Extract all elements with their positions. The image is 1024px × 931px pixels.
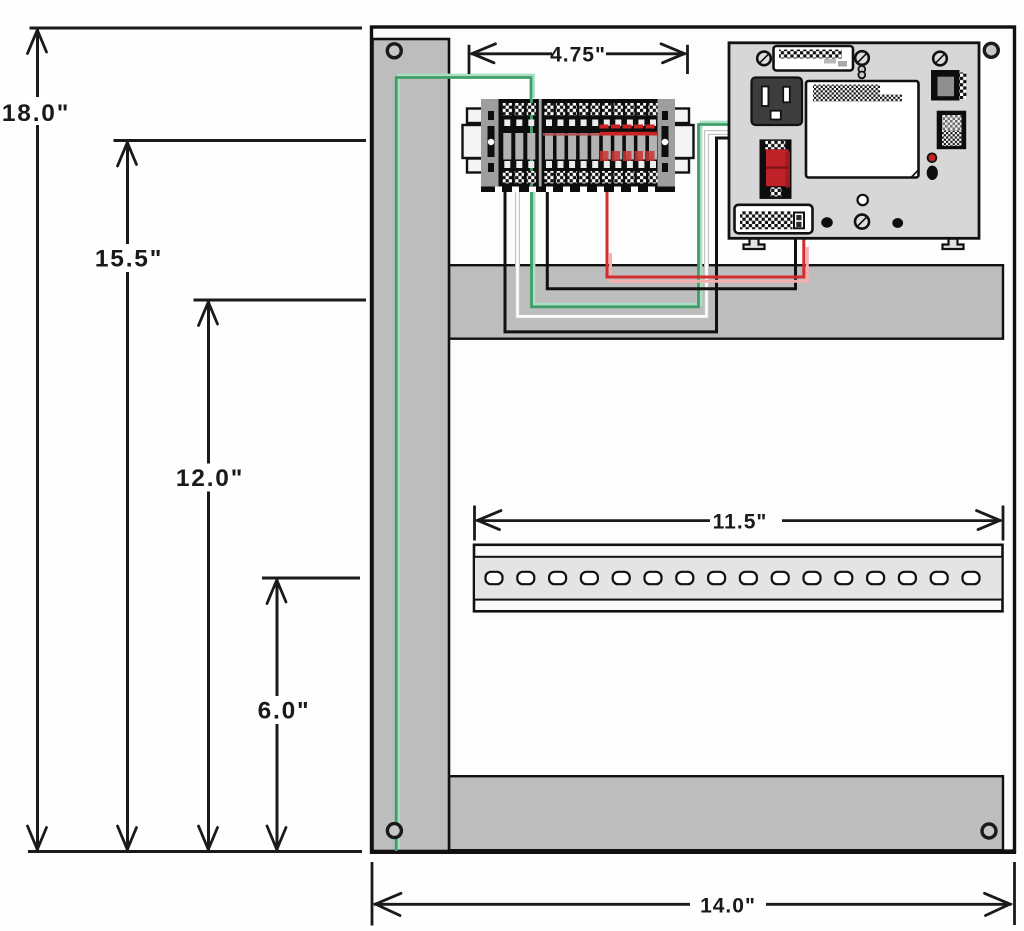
left mounting tabs	[467, 109, 483, 124]
green wire (left vertical run)	[397, 75, 400, 849]
screw panel bottom-right	[982, 824, 996, 838]
label 12.0	[196, 464, 221, 492]
square button 2	[937, 111, 967, 150]
IEC inlet	[752, 78, 803, 126]
svg-text:4.75": 4.75"	[550, 44, 606, 67]
left end cap	[481, 99, 499, 187]
right end cap	[658, 99, 676, 187]
white circle	[858, 195, 868, 205]
black wire 2: terminal block to module bottom connector	[547, 186, 795, 289]
dim 15.5 extension line	[114, 139, 367, 142]
rocker switch	[760, 139, 792, 199]
red LED	[928, 153, 937, 162]
dim 6.0 extension line	[262, 577, 360, 580]
red jumper marks	[543, 133, 657, 135]
DIN rail slots	[486, 572, 980, 584]
right mounting tabs	[673, 109, 689, 124]
bottom connector	[735, 205, 813, 234]
dim line 12.0 vertical	[207, 301, 210, 851]
black oval	[927, 166, 938, 180]
dim 18.0 extension line top	[30, 27, 363, 30]
svg-text:6.0": 6.0"	[258, 698, 311, 725]
dim 4.75	[469, 44, 688, 74]
dim 12.0 extension line	[194, 299, 367, 302]
module feet	[744, 239, 964, 250]
lower mounting strut	[449, 776, 1003, 850]
label 6.0	[265, 696, 289, 724]
arrowheads 6.0	[267, 580, 286, 604]
svg-text:14.0": 14.0"	[700, 894, 756, 917]
green wire top horizontal + drop to terminal block	[398, 75, 534, 98]
svg-text:11.5": 11.5"	[713, 511, 768, 534]
pin below screw	[858, 66, 865, 73]
screw panel bottom-left	[387, 824, 401, 838]
screw bottom middle	[855, 215, 869, 229]
module body	[729, 43, 979, 239]
arrowheads 12.0	[199, 302, 218, 326]
bottom rail notches	[481, 187, 675, 193]
green wire: terminal block to module left (inner)	[534, 122, 730, 304]
svg-text:18.0": 18.0"	[2, 100, 70, 127]
dim 11.5	[475, 506, 1004, 541]
terminal columns	[503, 103, 658, 183]
white wire: terminal block to module left (middle)	[518, 133, 731, 317]
dim 14.0	[372, 862, 1015, 926]
divider between groups	[539, 99, 542, 187]
D-sub label connector	[774, 46, 854, 71]
dim line 18.0 vertical	[36, 29, 39, 851]
label 18.0	[25, 97, 50, 125]
upper mounting strut	[449, 265, 1003, 339]
red wire: terminal block to module bottom	[607, 186, 804, 277]
black dot right	[892, 218, 903, 228]
red wire shadow (pink)	[611, 247, 808, 281]
dim line 15.5 vertical	[126, 142, 129, 851]
dim line 6.0 vertical	[276, 579, 279, 851]
label 15.5	[115, 244, 140, 272]
screw panel top-left	[387, 44, 401, 58]
green wire visible through block column 3	[530, 99, 533, 186]
screw top-left	[757, 52, 771, 66]
black dot left	[821, 217, 833, 227]
square button 1	[958, 73, 967, 100]
svg-text:15.5": 15.5"	[95, 246, 163, 273]
screw top-right area	[933, 52, 947, 66]
screw panel top-right	[984, 43, 998, 57]
block body	[481, 99, 675, 187]
arrowheads 15.5	[118, 143, 137, 167]
left vertical bar	[373, 39, 450, 851]
label plate	[806, 81, 919, 178]
panel backplate	[372, 27, 1015, 852]
black wire 1: terminal block to module left (outer)	[505, 138, 730, 332]
svg-text:12.0": 12.0"	[176, 465, 244, 492]
arrowheads 18.0	[28, 30, 47, 54]
DIN rail body	[474, 545, 1003, 612]
screw right of D-sub	[855, 51, 869, 65]
dim bottom shared extension line	[28, 850, 362, 853]
